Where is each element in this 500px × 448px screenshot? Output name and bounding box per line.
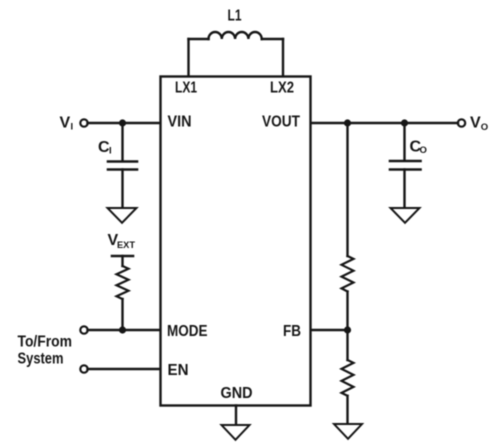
wire LX1 vertical [187,39,189,76]
wire FB chain upper [346,123,348,256]
svg-text:System: System [18,351,64,368]
node VIN junction [119,119,126,126]
node VOUT junction 1 [344,119,351,126]
wire GND [235,406,237,426]
VEXT supply bar [112,255,133,258]
svg-text:I: I [71,122,74,133]
svg-text:I: I [109,146,112,157]
resistor R1 (upper divider) [342,256,354,292]
terminal Vi [80,119,87,126]
svg-text:O: O [481,122,488,133]
inductor L1 [209,32,262,39]
wire VIN [88,122,161,124]
svg-text:V: V [60,115,71,132]
op-amp U1 (IC body) [161,77,311,406]
wire EN [88,368,161,370]
node VOUT junction 2 [401,119,408,126]
wire R2 to ground [346,396,348,424]
wire FB node to R2 [346,330,348,360]
terminal MODE [80,326,87,333]
wire to Ci [121,123,123,161]
svg-text:V: V [470,115,481,132]
terminal Vo [458,119,465,126]
wire Ci to ground [121,170,123,209]
node MODE junction [119,326,126,333]
svg-text:LX2: LX2 [270,80,294,97]
wire inductor left segment [189,38,209,40]
ground (divider) [334,424,362,439]
svg-text:LX1: LX1 [175,80,197,97]
capacitor C1 (Ci) [108,160,137,163]
wire MODE [88,329,161,331]
svg-text:EN: EN [168,362,189,379]
terminal EN [80,365,87,372]
svg-text:GND: GND [221,385,253,402]
wire R1 to FB node [346,292,348,331]
svg-text:O: O [420,145,427,156]
resistor R2 (lower divider) [342,360,354,396]
svg-text:VOUT: VOUT [262,114,300,131]
ground (Co) [391,208,420,223]
ground (GND pin) [222,425,250,440]
svg-text:FB: FB [283,323,301,340]
wire inductor right segment [262,38,283,40]
svg-text:To/From: To/From [18,334,73,351]
svg-text:VIN: VIN [168,114,192,131]
wire resistor to MODE [121,299,123,330]
wire to Co [403,123,405,161]
wire Co to ground [403,170,405,209]
svg-text:EXT: EXT [117,240,135,251]
resistor R-mode [117,266,129,299]
svg-text:L1: L1 [228,8,242,25]
wire FB [311,329,348,331]
wire VEXT to resistor [121,256,123,266]
ground (Ci) [108,208,137,223]
wire VOUT [311,122,458,124]
svg-text:MODE: MODE [167,323,208,340]
node FB junction [344,326,351,333]
wire LX2 vertical [282,39,284,76]
capacitor C2 (Co) [390,160,421,163]
